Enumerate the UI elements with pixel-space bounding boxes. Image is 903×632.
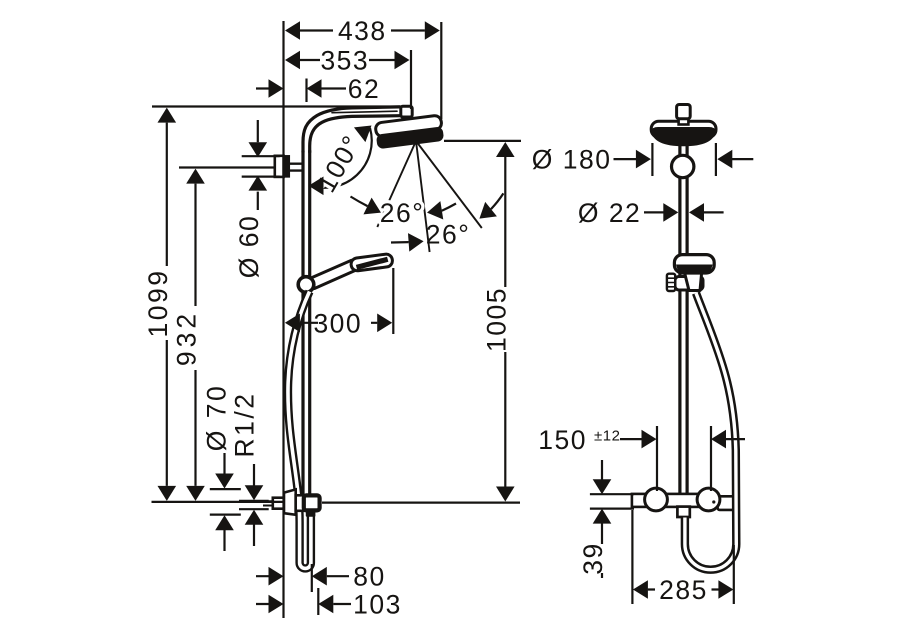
svg-text:300: 300 [313, 308, 362, 338]
svg-text:Ø 60: Ø 60 [234, 215, 264, 278]
dim 103 [256, 603, 351, 605]
svg-text:62: 62 [348, 74, 380, 104]
dim O70 lines [210, 489, 241, 514]
hand shower handle (front) [685, 273, 702, 291]
svg-text:103: 103 [353, 590, 402, 620]
svg-text:39: 39 [578, 542, 608, 574]
overhead shower head (side view, tilted) [374, 115, 444, 149]
shower hose (side view): long drop + loop under valve [288, 292, 311, 569]
svg-text:932: 932 [172, 310, 202, 366]
shower pipe column (side view) [301, 151, 304, 497]
svg-text:26°: 26° [426, 220, 471, 250]
head spray face reference line [444, 140, 521, 142]
wall line [282, 21, 284, 618]
hand shower holder (front) [667, 274, 703, 291]
dim 1005 line [504, 157, 506, 487]
slider holder ring on column [298, 277, 314, 293]
arrowheads, right view [593, 150, 734, 599]
valve inlet connection left [645, 488, 668, 511]
thermostat/valve connection (side view) [263, 489, 320, 516]
svg-text:285: 285 [659, 575, 708, 605]
dim 932 line [194, 184, 196, 486]
svg-text:353: 353 [320, 45, 369, 75]
valve inlet connection right [697, 488, 720, 511]
extension line 353 right [410, 50, 412, 109]
svg-text:80: 80 [353, 562, 385, 592]
hand shower handle (side) [312, 260, 355, 288]
svg-text:Ø 180: Ø 180 [532, 145, 612, 175]
dim 300 right extension [392, 268, 394, 334]
dim 438 line [300, 29, 425, 31]
hose connector under valve [677, 507, 689, 517]
svg-text:Ø 70: Ø 70 [202, 384, 232, 451]
valve axis reference line [322, 502, 520, 504]
dim R1/2 lines [239, 501, 269, 509]
thermostat valve bar (front) [632, 494, 734, 510]
dim 150 [657, 426, 711, 491]
extension line 62 right [305, 79, 307, 103]
svg-text:±12: ±12 [594, 427, 620, 444]
spray fan lines [377, 141, 482, 252]
100 deg arc [309, 128, 372, 188]
shower hose (front view) [685, 293, 736, 570]
dim 300 line [300, 322, 378, 324]
arrowheads, left view [158, 21, 515, 613]
dim O60 lines [242, 156, 280, 176]
overhead shower arm joint stub (side) [401, 106, 412, 124]
svg-text:26°: 26° [380, 198, 425, 228]
dim 80 [256, 575, 349, 577]
svg-text:Ø 22: Ø 22 [578, 198, 641, 228]
overhead shower face plate (black) [651, 127, 716, 146]
bottom wall reference line [152, 501, 284, 503]
dim 353 line [300, 59, 395, 61]
dim 62 line [256, 87, 346, 89]
top joint stub (front) [677, 105, 691, 125]
svg-text:1099: 1099 [143, 269, 173, 338]
hand shower head (side) [350, 253, 393, 271]
svg-text:R1/2: R1/2 [230, 392, 260, 458]
dim 285 [632, 510, 733, 604]
shower arm curve [303, 107, 400, 152]
column pipe (front) [678, 123, 681, 494]
svg-text:1005: 1005 [481, 287, 511, 352]
hand shower head (front) [674, 255, 714, 273]
svg-text:438: 438 [338, 16, 387, 46]
ball joint [672, 155, 694, 177]
dim O180 [652, 143, 716, 176]
dim 1099 line [166, 123, 168, 486]
top reference line (top of column) [152, 105, 401, 107]
bracket axis reference line [179, 166, 275, 168]
wall bracket of column (side) [275, 156, 302, 177]
overhead shower (front): cap [651, 121, 716, 137]
svg-text:150: 150 [538, 425, 587, 455]
dim 39 [590, 494, 634, 508]
dim O22 [644, 211, 724, 213]
26 deg arcs (tails) [351, 193, 504, 242]
extension line 438 right [440, 22, 442, 119]
